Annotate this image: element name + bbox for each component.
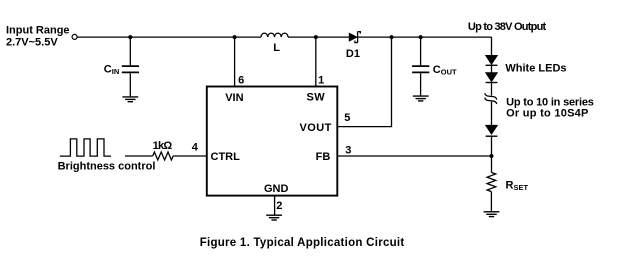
node: input terminal circle — [72, 34, 77, 39]
svg-text:1kΩ: 1kΩ — [153, 140, 173, 152]
ground under CIN — [122, 97, 138, 102]
svg-text:Or up to 10S4P: Or up to 10S4P — [506, 107, 588, 119]
svg-text:GND: GND — [264, 183, 289, 195]
svg-text:SW: SW — [307, 92, 326, 104]
svg-text:4: 4 — [192, 142, 199, 154]
wire — [491, 136, 493, 172]
ground under RSET — [484, 212, 500, 217]
node: junction dot COUT tap — [419, 35, 423, 39]
wire — [490, 192, 492, 212]
IC U1 box — [207, 87, 337, 196]
svg-text:D1: D1 — [346, 48, 360, 60]
svg-text:2: 2 — [276, 200, 282, 212]
pin 6 wire (VIN) — [234, 37, 236, 86]
node: junction dot VOUT tap — [390, 35, 394, 39]
svg-text:Input Range: Input Range — [6, 25, 70, 37]
pin 3 wire (FB) — [337, 155, 491, 157]
svg-text:2.7V~5.5V: 2.7V~5.5V — [6, 36, 58, 48]
svg-text:VOUT: VOUT — [300, 122, 332, 134]
node: junction dot at CIN tap — [128, 35, 132, 39]
svg-text:6: 6 — [238, 75, 244, 87]
svg-text:Figure 1. Typical Application: Figure 1. Typical Application Circuit — [200, 237, 405, 249]
pin 4 wire (CTRL) — [173, 155, 207, 157]
wire — [491, 83, 493, 96]
ground under pin 2 — [266, 215, 282, 220]
resistor RSET — [487, 172, 496, 191]
diode D1 (Schottky) — [346, 32, 360, 60]
LED D3 — [486, 73, 498, 83]
capacitor CIN — [104, 37, 139, 96]
svg-text:Up to 38V Output: Up to 38V Output — [468, 21, 547, 33]
node: junction dot at VIN tap — [233, 35, 237, 39]
wire — [491, 64, 493, 72]
ground under COUT — [413, 96, 429, 101]
wire — [491, 102, 493, 126]
node: junction dot at SW tap — [314, 35, 318, 39]
inductor L — [261, 33, 288, 37]
svg-text:FB: FB — [316, 151, 331, 163]
svg-text:VIN: VIN — [225, 92, 243, 104]
wire: diode to right corner — [358, 36, 492, 38]
wire: top rail corner down to LED string — [491, 37, 493, 56]
svg-text:CTRL: CTRL — [211, 151, 241, 163]
pin 1 wire (SW) — [315, 37, 317, 86]
svg-text:1: 1 — [318, 74, 324, 86]
svg-text:3: 3 — [345, 145, 351, 157]
LED D4 — [486, 125, 498, 136]
wire: inductor to diode — [288, 36, 349, 38]
pin 2 wire (GND) — [274, 196, 276, 215]
svg-text:5: 5 — [344, 112, 350, 124]
PWM waveform (brightness control) — [60, 139, 111, 156]
wire: main top rail input to inductor — [77, 36, 261, 38]
pin 5 wire (VOUT) — [337, 37, 391, 127]
svg-text:L: L — [273, 42, 280, 54]
wire: brightness control to resistor — [125, 155, 153, 157]
resistor 1k ohm — [153, 152, 173, 160]
node: junction dot FB / LED / RSET — [490, 154, 494, 158]
svg-text:White LEDs: White LEDs — [505, 63, 566, 75]
break squiggle (series continuation) — [485, 93, 497, 104]
svg-text:Brightness control: Brightness control — [58, 161, 156, 173]
capacitor COUT — [412, 37, 457, 95]
LED D2 (white LED string) — [486, 55, 498, 65]
